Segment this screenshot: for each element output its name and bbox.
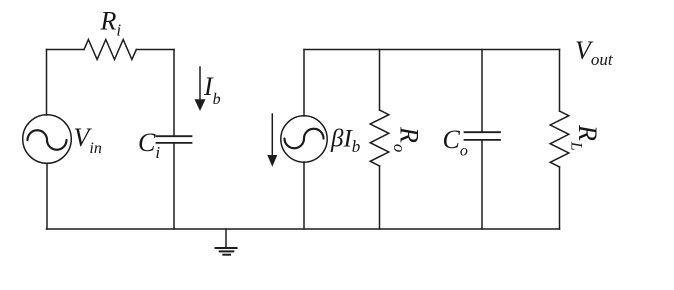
capacitor C_o top plate	[465, 131, 501, 133]
svg-text:Ri: Ri	[100, 7, 122, 40]
ground bar 2	[220, 250, 234, 252]
wire R_i to C_i top node	[136, 49, 174, 51]
wire C_i branch vertical top	[173, 50, 175, 137]
wire R_o bottom	[379, 166, 381, 229]
wire V_in bottom to ground rail	[46, 163, 48, 229]
svg-text:βIb: βIb	[330, 126, 360, 157]
wire R_L bottom	[559, 167, 561, 229]
resistor R_o (zigzag)	[370, 110, 389, 166]
capacitor C_i bottom plate	[157, 142, 192, 144]
sine wave inside V_in	[28, 130, 67, 150]
wire top rail right section	[304, 49, 560, 51]
wire current source branch top	[303, 50, 305, 117]
arrow I_b (head)	[195, 99, 206, 111]
wire R_o branch top	[379, 50, 381, 111]
svg-text:Ro: Ro	[390, 126, 424, 152]
controlled source βI_b (circle)	[281, 116, 327, 162]
ground bar 1	[216, 247, 237, 249]
arrow beside source (line)	[271, 114, 273, 155]
wire left vertical (top corner down to V_in source)	[46, 50, 48, 116]
arrow I_b (line)	[199, 67, 201, 100]
ground bar 3	[223, 254, 230, 256]
sine wave inside βI_b	[285, 129, 324, 149]
bottom ground rail wire	[47, 228, 560, 230]
wire C_i bottom to ground rail	[173, 143, 175, 229]
ground stub wire	[225, 229, 227, 248]
capacitor C_i top plate	[157, 135, 192, 137]
wire C_o branch top	[481, 50, 483, 133]
svg-text:Vout: Vout	[575, 36, 614, 69]
capacitor C_o bottom plate	[465, 139, 501, 141]
wire C_o bottom	[481, 140, 483, 229]
wire R_L branch top	[559, 50, 561, 112]
svg-text:Vin: Vin	[74, 123, 102, 157]
svg-text:Co: Co	[443, 125, 468, 159]
svg-text:Ci: Ci	[138, 128, 160, 162]
arrow beside source (head)	[267, 155, 277, 167]
resistor R_L (zigzag)	[550, 111, 569, 167]
wire current source bottom	[303, 162, 305, 229]
wire top-left horizontal (V_in top to R_i)	[47, 49, 85, 51]
source V_in (circle)	[23, 115, 72, 164]
svg-text:RL: RL	[568, 124, 602, 151]
resistor R_i (zigzag)	[84, 40, 136, 60]
svg-text:Ib: Ib	[203, 72, 221, 108]
